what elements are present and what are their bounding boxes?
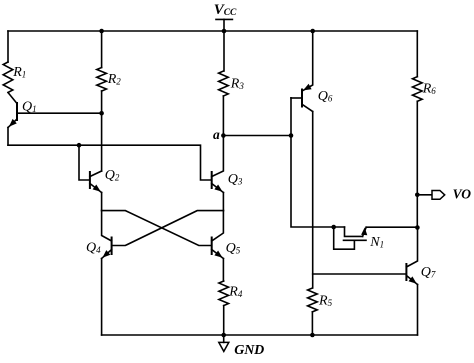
svg-text:VO: VO (453, 187, 472, 202)
svg-text:GND: GND (234, 343, 264, 358)
svg-text:a: a (213, 127, 220, 142)
